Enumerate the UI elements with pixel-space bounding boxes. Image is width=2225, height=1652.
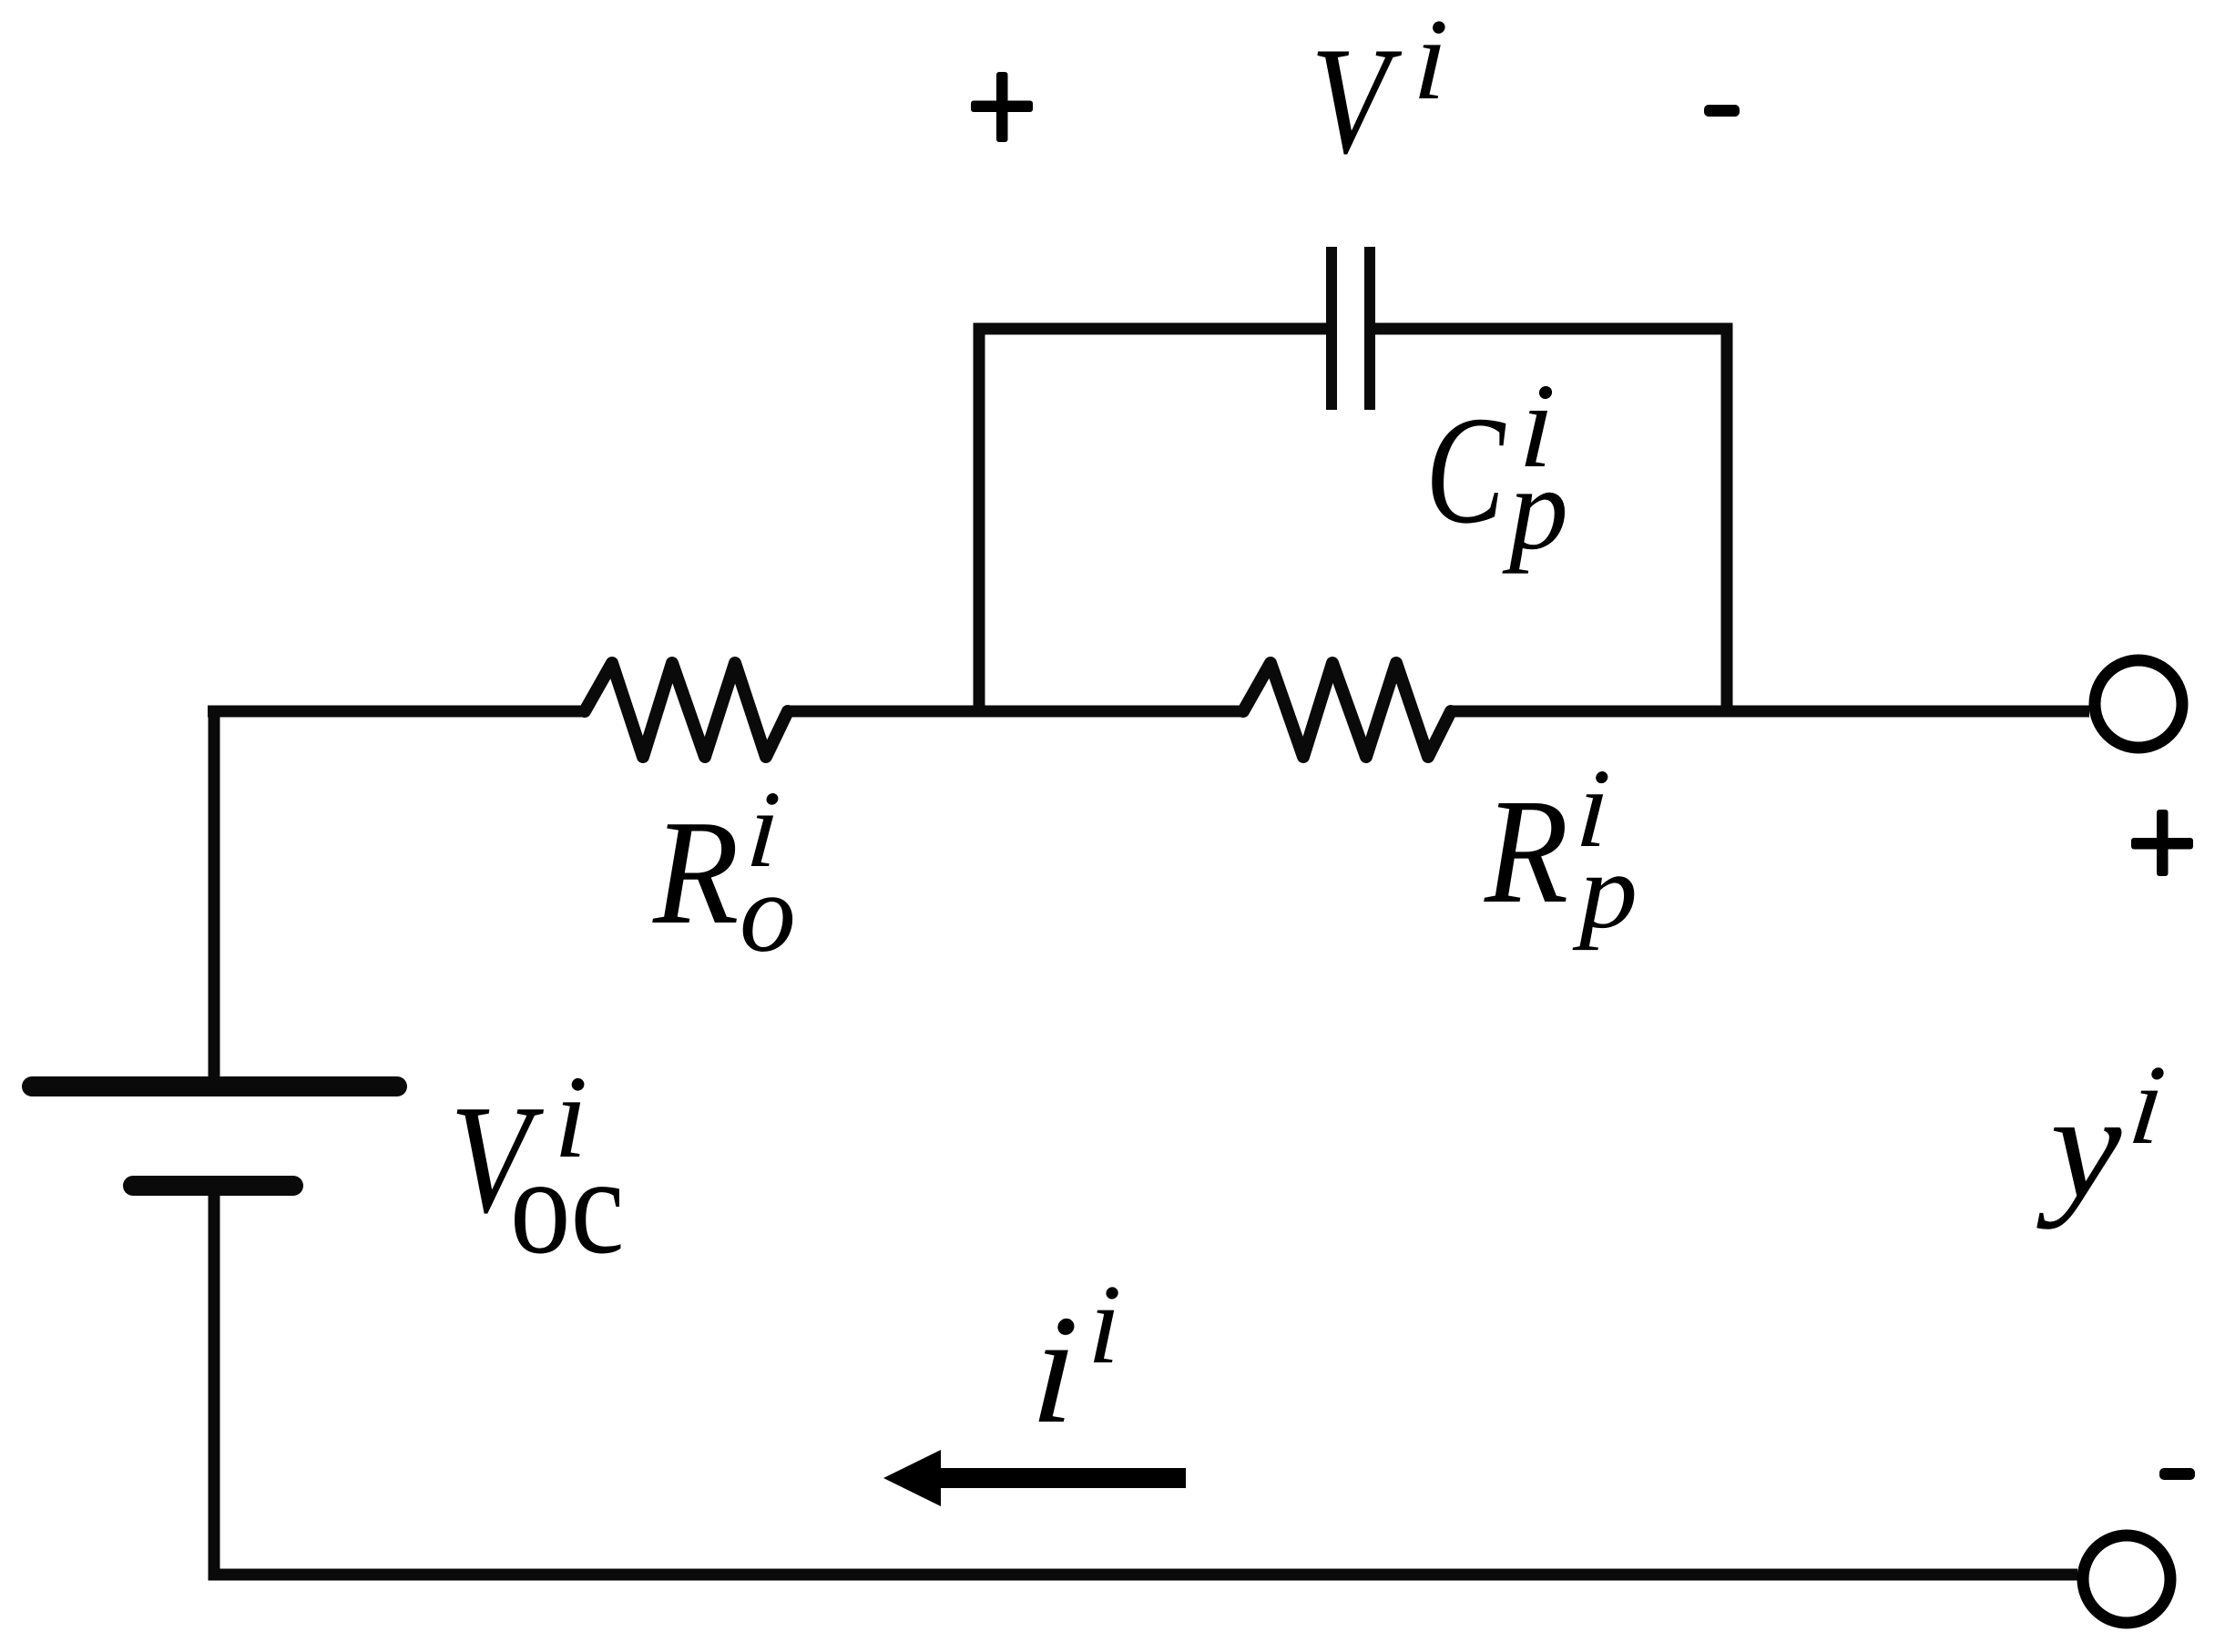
svg-text:i: i (1028, 1283, 1082, 1456)
svg-text:oc: oc (510, 1128, 625, 1282)
svg-text:V: V (1311, 15, 1403, 186)
svg-text:o: o (740, 851, 796, 975)
svg-text:C: C (1425, 384, 1506, 556)
svg-text:p: p (1502, 444, 1568, 575)
svg-text:R: R (652, 789, 739, 955)
svg-text:y: y (2036, 1063, 2122, 1229)
svg-text:i: i (1087, 1262, 1123, 1388)
svg-text:p: p (1572, 831, 1638, 951)
svg-text:R: R (1484, 768, 1568, 934)
svg-text:i: i (2123, 1042, 2170, 1168)
svg-text:i: i (1412, 0, 1451, 124)
